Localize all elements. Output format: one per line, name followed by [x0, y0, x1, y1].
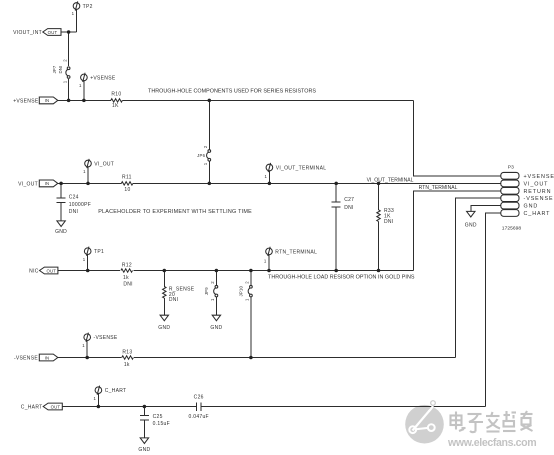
node JP7/+VSENSE row	[67, 99, 71, 103]
wire C24 bottom lead	[60, 203, 62, 221]
svg-text:www.elecfans.com: www.elecfans.com	[447, 437, 536, 449]
svg-text:DNI: DNI	[69, 209, 79, 215]
svg-text:0.047uF: 0.047uF	[188, 414, 208, 420]
svg-text:C25: C25	[153, 414, 163, 420]
node R33 bottom	[377, 269, 381, 273]
svg-text:1: 1	[94, 396, 97, 401]
svg-text:1: 1	[62, 80, 67, 83]
node JP10/-VSENSE row	[249, 356, 253, 360]
svg-text:GND: GND	[465, 223, 477, 229]
node RTN_TERMINAL testpoint	[267, 269, 271, 273]
wire VI_OUT row left	[58, 182, 122, 184]
svg-text:0.15uF: 0.15uF	[153, 421, 170, 427]
jumper JP10	[239, 281, 253, 301]
node C24	[59, 182, 63, 186]
svg-text:10000PF: 10000PF	[69, 202, 91, 208]
svg-text:DNI: DNI	[123, 281, 133, 287]
wire VI_OUT testpoint lead	[87, 167, 89, 184]
wire R33 bottom lead	[378, 221, 380, 270]
svg-text:R10: R10	[111, 91, 121, 97]
svg-text:IN: IN	[45, 181, 50, 186]
svg-text:2: 2	[210, 281, 215, 284]
svg-text:C_HART: C_HART	[105, 388, 127, 394]
jumper JP9	[204, 281, 218, 301]
svg-text:2: 2	[245, 281, 250, 284]
svg-text:1: 1	[245, 298, 250, 301]
wire C24 top lead	[60, 183, 62, 198]
svg-text:JP9: JP9	[204, 287, 209, 295]
svg-text:GND: GND	[138, 447, 150, 453]
svg-text:GND: GND	[210, 325, 222, 331]
svg-text:DNI: DNI	[344, 205, 354, 211]
testpoint -VSENSE	[82, 333, 118, 348]
svg-text:GND: GND	[55, 229, 67, 235]
wire JP9 bottom lead	[215, 297, 217, 315]
wire JP10 top lead	[250, 271, 252, 286]
node C27 top	[334, 182, 338, 186]
svg-text:C27: C27	[344, 197, 354, 203]
svg-text:JP7: JP7	[52, 65, 57, 73]
svg-text:IN: IN	[45, 355, 50, 360]
node VI_OUT_TERMINAL testpoint	[268, 182, 272, 186]
svg-text:DNI: DNI	[384, 219, 394, 225]
svg-text:JP6: JP6	[197, 153, 205, 158]
svg-text:VI_OUT_TERMINAL: VI_OUT_TERMINAL	[276, 166, 327, 172]
output port NIC	[29, 267, 58, 274]
svg-text:R12: R12	[122, 263, 132, 269]
node +VSENSE testpoint	[82, 99, 86, 103]
wire C27 bottom lead	[335, 207, 337, 271]
svg-text:2: 2	[203, 145, 208, 148]
svg-text:1725698: 1725698	[502, 225, 522, 231]
wire C25 bottom lead	[143, 420, 145, 438]
resistor R12	[121, 263, 133, 288]
svg-text:-VSENSE: -VSENSE	[14, 356, 38, 362]
wire P3 GND lead	[471, 206, 501, 212]
resistor R13	[122, 350, 134, 368]
svg-text:RTN_TERMINAL: RTN_TERMINAL	[419, 185, 458, 191]
svg-text:VI_OUT: VI_OUT	[94, 162, 114, 168]
svg-text:-VSENSE: -VSENSE	[524, 196, 554, 202]
svg-text:1: 1	[72, 11, 75, 16]
svg-text:C26: C26	[194, 395, 204, 401]
svg-text:OUT: OUT	[46, 268, 56, 273]
wire C_HART testpoint lead	[97, 393, 99, 406]
svg-text:NIC: NIC	[29, 269, 39, 275]
wire C25 top lead	[143, 407, 145, 416]
svg-text:C_HART: C_HART	[21, 405, 43, 411]
svg-text:1: 1	[82, 343, 85, 348]
svg-text:1k: 1k	[124, 362, 130, 368]
wire C27 top lead	[335, 183, 337, 202]
wire TP1 lead	[87, 254, 89, 270]
node VI_OUT testpoint	[86, 182, 90, 186]
node R33 top	[377, 182, 381, 186]
capacitor C26	[196, 402, 201, 411]
svg-text:IN: IN	[45, 98, 50, 103]
svg-text:+VSENSE: +VSENSE	[13, 98, 39, 104]
ground below C25	[138, 438, 150, 453]
wire RETURN net vertical from P3	[414, 191, 501, 271]
node -VSENSE testpoint	[85, 356, 89, 360]
svg-text:VIOUT_INT: VIOUT_INT	[13, 30, 42, 36]
wire -VSENSE row right	[134, 357, 456, 359]
wire RTN_TERMINAL testpoint lead	[268, 255, 270, 271]
wire NIC row left	[58, 270, 120, 272]
resistor R_SENSE	[163, 286, 195, 303]
jumper JP7	[52, 59, 70, 84]
svg-text:RETURN: RETURN	[524, 189, 552, 195]
svg-text:1: 1	[203, 162, 208, 165]
wire +VSENSE row right	[122, 99, 413, 101]
node JP6/VI_OUT row	[208, 182, 212, 186]
node JP9 top	[215, 269, 219, 273]
wire C_HART row left	[62, 406, 196, 408]
ground below JP9	[210, 315, 222, 331]
svg-text:TP2: TP2	[83, 4, 93, 10]
svg-text:1: 1	[83, 169, 86, 174]
svg-text:2: 2	[62, 59, 67, 62]
svg-text:C24: C24	[69, 194, 79, 200]
svg-text:THROUGH-HOLE COMPONENTS USED F: THROUGH-HOLE COMPONENTS USED FOR SERIES …	[148, 89, 316, 95]
wire C_HART net vertical from P3	[486, 213, 501, 407]
svg-text:-VSENSE: -VSENSE	[94, 335, 118, 341]
svg-text:PLACEHOLDER TO EXPERIMENT WITH: PLACEHOLDER TO EXPERIMENT WITH SETTLING …	[98, 209, 252, 215]
wire +VSENSE net vertical to P3	[414, 100, 501, 175]
connector P3	[501, 164, 554, 231]
svg-text:VI_OUT: VI_OUT	[524, 181, 549, 187]
svg-text:DNI: DNI	[58, 66, 63, 74]
watermark logo disc	[405, 405, 444, 444]
svg-text:P3: P3	[508, 164, 514, 170]
output port C_HART	[21, 403, 63, 410]
output port VIOUT_INT	[13, 29, 61, 36]
wire VIOUT_INT row	[61, 31, 77, 33]
wire TP2 lead	[76, 9, 78, 32]
watermark logo tail	[429, 401, 436, 412]
testpoint RTN_TERMINAL	[264, 247, 317, 264]
svg-text:OUT: OUT	[48, 30, 58, 35]
input port +VSENSE	[13, 97, 58, 104]
svg-text:TP1: TP1	[94, 249, 104, 255]
wire JP7 bottom lead	[68, 79, 70, 100]
node TP1	[86, 269, 90, 273]
svg-text:OUT: OUT	[51, 404, 61, 409]
testpoint C_HART	[94, 386, 127, 402]
node C27 bottom	[334, 269, 338, 273]
resistor R33	[377, 208, 394, 225]
wire JP9 top lead	[215, 271, 217, 286]
svg-text:C_HART: C_HART	[524, 211, 551, 217]
node VIOUT_INT/JP7	[67, 30, 71, 34]
capacitor C24	[57, 198, 66, 203]
svg-text:10: 10	[124, 187, 130, 193]
wire NIC row right	[134, 270, 414, 272]
watermark chinese characters	[451, 411, 533, 432]
input port -VSENSE	[14, 354, 58, 361]
wire +VSENSE row left	[58, 99, 111, 101]
node C25	[143, 405, 147, 409]
svg-text:DNI: DNI	[169, 297, 179, 303]
svg-text:GND: GND	[158, 325, 170, 331]
wire JP6 bottom lead	[208, 161, 210, 184]
wire JP7 top lead	[68, 32, 70, 66]
svg-text:1k: 1k	[123, 275, 129, 281]
jumper JP6	[197, 145, 210, 165]
svg-text:1K: 1K	[112, 103, 119, 109]
resistor R11	[121, 174, 133, 193]
svg-text:JP10: JP10	[239, 286, 244, 297]
wire R_SENSE bottom lead	[163, 298, 165, 315]
wire C_HART row right	[201, 406, 485, 408]
svg-text:RTN_TERMINAL: RTN_TERMINAL	[275, 249, 317, 255]
svg-text:THROUGH-HOLE LOAD RESISOR OPTI: THROUGH-HOLE LOAD RESISOR OPTION IN GOLD…	[268, 274, 415, 280]
svg-text:1: 1	[79, 83, 82, 88]
capacitor C27	[332, 202, 341, 207]
wire R_SENSE top lead	[163, 271, 165, 287]
testpoint VI_OUT_TERMINAL	[265, 163, 327, 179]
svg-text:1: 1	[83, 257, 86, 262]
ground below C24	[55, 221, 67, 235]
wire -VSENSE testpoint lead	[86, 340, 88, 357]
ground below R_SENSE	[158, 315, 170, 331]
wire -VSENSE row left	[58, 357, 122, 359]
wire R33 top lead	[378, 183, 380, 210]
testpoint VI_OUT	[83, 159, 114, 174]
resistor R10	[111, 91, 123, 109]
testpoint +VSENSE	[79, 73, 116, 88]
node JP10 top	[249, 269, 253, 273]
node JP6/+VSENSE row	[208, 99, 212, 103]
wire +VSENSE testpoint lead	[83, 81, 85, 101]
wire VI_OUT row to P3 pin 2	[133, 182, 501, 184]
wire JP10 bottom lead	[250, 297, 252, 358]
svg-text:VI_OUT: VI_OUT	[18, 181, 38, 187]
svg-text:1: 1	[210, 298, 215, 301]
testpoint TP1	[83, 247, 104, 262]
svg-text:+VSENSE: +VSENSE	[524, 174, 554, 180]
svg-text:1: 1	[265, 174, 268, 179]
svg-text:GND: GND	[524, 204, 539, 210]
svg-text:VI_OUT_TERMINAL: VI_OUT_TERMINAL	[367, 177, 414, 183]
wire -VSENSE net vertical from P3	[456, 198, 501, 357]
node C_HART testpoint	[97, 405, 101, 409]
svg-text:1: 1	[264, 259, 267, 264]
ground at P3	[465, 211, 477, 228]
wire JP6 top lead	[208, 100, 210, 149]
input port VI_OUT	[18, 180, 58, 187]
testpoint TP2	[72, 1, 93, 16]
svg-text:R11: R11	[122, 174, 132, 180]
capacitor C25	[140, 415, 149, 420]
wire VI_OUT_TERMINAL testpoint lead	[268, 171, 270, 184]
node R_SENSE top	[163, 269, 167, 273]
svg-text:R13: R13	[122, 350, 132, 356]
svg-text:+VSENSE: +VSENSE	[90, 75, 116, 81]
